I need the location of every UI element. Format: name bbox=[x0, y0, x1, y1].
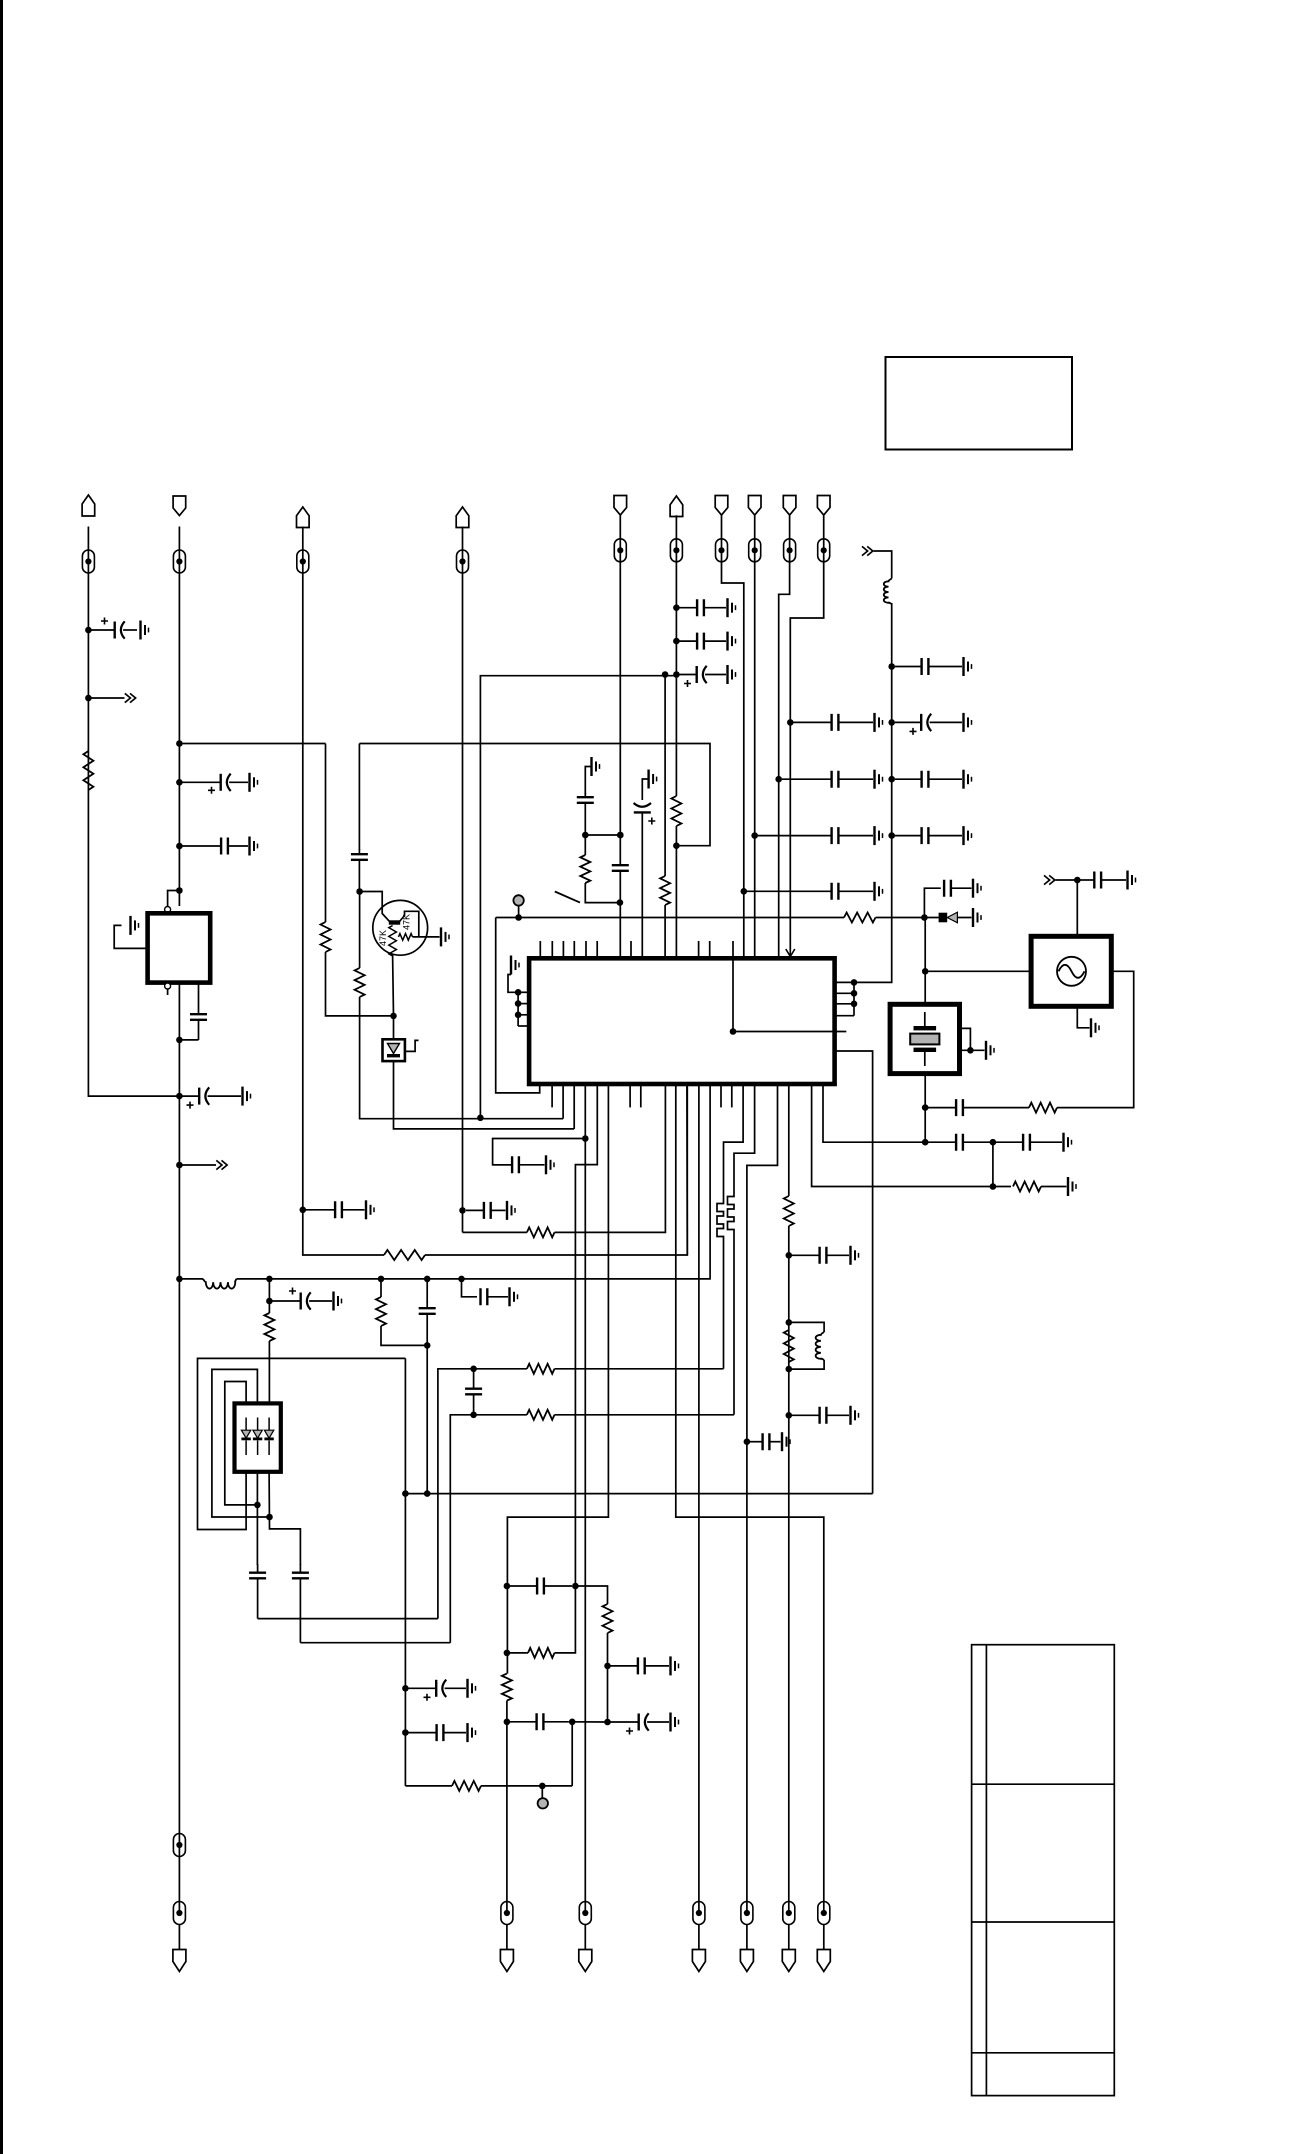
ground for C22 bbox=[964, 826, 972, 845]
terminal T18 bbox=[818, 1902, 830, 1925]
wire into terminal T1 bbox=[87, 527, 89, 574]
wire P8 straight to IC pin 755 bbox=[754, 561, 756, 958]
connector P-T15 (pentagon down) bbox=[692, 1950, 705, 1972]
wire bus to x=710 riser bbox=[237, 1278, 711, 1280]
capacitor C43 bbox=[508, 1713, 569, 1730]
resistor R21 bbox=[603, 1604, 613, 1633]
junction loop B bbox=[266, 1514, 273, 1521]
junction x179/y890 (U1 top pin tap) bbox=[176, 887, 183, 894]
wire D1 cathode down to IC pin 574 bbox=[394, 1061, 575, 1129]
wire x=179 from T2 down to U1 bbox=[178, 573, 180, 906]
terminal T13 bbox=[501, 1902, 513, 1925]
IC U2 bottom pin stub x=630.1 bbox=[629, 1084, 631, 1107]
wire P3 column down and right bbox=[303, 573, 384, 1255]
capacitor C12 (polarized, to ground) bbox=[679, 666, 726, 687]
diode D1 (in box) bbox=[383, 1039, 405, 1061]
junction x788/y1255 bbox=[786, 1252, 793, 1259]
ground for C15 bbox=[875, 713, 883, 732]
junction rail y=779 bbox=[888, 776, 895, 783]
junction LED drive node bbox=[390, 1013, 397, 1020]
ground for C13 bbox=[728, 598, 736, 617]
junction TP1 bbox=[515, 914, 522, 921]
capacitor C33 bbox=[419, 1301, 436, 1345]
junction x405/y1733 bbox=[402, 1729, 409, 1736]
diode D2 bbox=[924, 912, 971, 923]
resistor R5 bbox=[355, 968, 365, 997]
wire bus to C33 bbox=[426, 1279, 428, 1302]
IC U2 top pin stub x=586 bbox=[585, 941, 587, 958]
wire D2 node up to C23 bbox=[924, 888, 940, 917]
capacitor C18 (to ground) bbox=[747, 883, 873, 900]
ground for C21 bbox=[964, 770, 972, 789]
capacitor C40 bbox=[510, 1578, 572, 1595]
svg-text:47K: 47K bbox=[402, 914, 412, 930]
capacitor C3 (to ground) bbox=[182, 838, 248, 855]
junction x744/y891 bbox=[741, 888, 748, 895]
IC U2 top pin stub x=563.4 bbox=[562, 941, 564, 958]
diode D3.1 bbox=[241, 1418, 250, 1456]
wire IC pin 710 down to bus bbox=[709, 1084, 711, 1279]
wire into terminal T4 bbox=[462, 527, 464, 574]
empty label box bbox=[886, 357, 1073, 450]
ground for C30 bbox=[1064, 1133, 1072, 1152]
connector P10 (flag down) bbox=[817, 496, 830, 516]
wire y1786 left bbox=[405, 1785, 452, 1787]
wire IC pin 788 down to R12 bbox=[788, 1084, 790, 1196]
off-page arrow A3 (>>) bbox=[862, 546, 873, 555]
junction x179/y846 bbox=[176, 843, 183, 850]
wire net y=743 segment A bbox=[179, 743, 325, 745]
resistor R22 bbox=[528, 1648, 555, 1658]
wire C35 to x438 riser bbox=[258, 1618, 438, 1620]
U2 left pin 4 bbox=[518, 1025, 529, 1027]
wire T15 to pentagon bbox=[698, 1925, 700, 1950]
capacitor C29 bbox=[928, 1134, 991, 1151]
resistor R17 bbox=[376, 1297, 386, 1326]
revision table bbox=[972, 1645, 1115, 2096]
wire T12 to pentagon bbox=[178, 1925, 180, 1950]
wire A3 to L1 bbox=[874, 551, 892, 579]
terminal T1 bbox=[82, 550, 94, 573]
junction rail y=836 bbox=[888, 832, 895, 839]
terminal T5 bbox=[614, 539, 626, 562]
junction X1 bottom y1107 bbox=[922, 1104, 929, 1111]
wire R10 to IC pin 676 bbox=[675, 826, 677, 958]
junction right pin3 bbox=[851, 1001, 858, 1008]
wire IC pin 811 to right resistor row bbox=[812, 1084, 1011, 1187]
junction bus x269 bbox=[266, 1276, 273, 1283]
capacitor C13 (to ground) bbox=[679, 599, 726, 616]
U2 left pin 2 bbox=[518, 1003, 529, 1005]
junction left pin1 bbox=[515, 989, 522, 996]
wire IC pin 686 down bbox=[686, 1084, 688, 1255]
capacitor C19 (to ground) bbox=[895, 658, 962, 675]
wire y=675 row from x=480 riser bbox=[480, 676, 676, 1118]
wire P9 jog to IC pin 779 bbox=[779, 561, 790, 958]
junction inside U2 bbox=[730, 1028, 737, 1035]
U2 right pin 3 bbox=[835, 1003, 854, 1005]
ground for C5 bbox=[243, 1087, 251, 1106]
resistor R8 bbox=[580, 855, 590, 883]
connector P5 (flag down) bbox=[614, 496, 627, 516]
capacitor C27 (to ground) bbox=[750, 1433, 781, 1450]
junction x676/y675 bbox=[673, 671, 680, 678]
capacitor C16 (to ground) bbox=[782, 771, 873, 788]
junction y1415/x473 bbox=[470, 1412, 477, 1419]
junction x179/y1096 bbox=[176, 1093, 183, 1100]
wire x=359 to R5 bbox=[359, 892, 361, 969]
junction x427/y1345 bbox=[424, 1342, 431, 1349]
wire TP2 stem bbox=[541, 1786, 543, 1798]
wire into terminal T6 bbox=[675, 515, 677, 562]
wire X1 right pin 2 to ground bbox=[960, 1049, 985, 1051]
wire ground hook to C11 bbox=[642, 779, 648, 800]
capacitor C41 (to ground) bbox=[610, 1657, 669, 1674]
ground for C17 bbox=[875, 826, 883, 845]
ground for C1 bbox=[141, 621, 149, 640]
junction transistor collector node bbox=[356, 888, 363, 895]
wire A4 to OSC1 top pin bbox=[1056, 880, 1078, 936]
junction rail y=722 bbox=[888, 719, 895, 726]
U2 left pin 3 bbox=[518, 1014, 529, 1016]
ground for C39 bbox=[468, 1723, 476, 1742]
ground for Q1 bbox=[441, 927, 449, 946]
resistor R1 bbox=[83, 751, 93, 790]
wire net y=917 long horizontal bbox=[496, 917, 844, 919]
wire R21 down bbox=[607, 1633, 609, 1722]
junction x585/y835 bbox=[582, 832, 589, 839]
diode D3.3 bbox=[264, 1418, 273, 1456]
IC U2 top pin stub x=698.6 bbox=[698, 941, 700, 958]
wire T16 to pentagon bbox=[746, 1925, 748, 1950]
wire into terminal T9 bbox=[789, 515, 791, 562]
wire R22 to x=507 bbox=[507, 1652, 528, 1654]
junction left pin3 bbox=[515, 1012, 522, 1019]
IC U2 top pin stub x=709.7 bbox=[709, 941, 711, 958]
wire x=993 down bbox=[992, 1142, 994, 1186]
terminal T2 bbox=[173, 550, 185, 573]
IC U2 top pin stub x=574.3 bbox=[573, 941, 575, 958]
wire loop C (D3 bottom1 around) bbox=[198, 1358, 406, 1529]
ground for X1 bbox=[986, 1041, 994, 1060]
wire x=359 from y743 to C8 bbox=[358, 744, 360, 851]
U2 right pin 1 bbox=[835, 981, 854, 983]
capacitor C31 (to ground) bbox=[1080, 872, 1126, 889]
ground for C3 bbox=[250, 837, 258, 856]
junction bus start x=179 bbox=[176, 1276, 183, 1283]
wire ground to U2 left pins bbox=[508, 975, 518, 993]
off-page arrow A1 (>>) bbox=[125, 693, 136, 702]
node A1 tap bbox=[85, 695, 92, 702]
IC U2 bottom pin stub x=731.8 bbox=[731, 1084, 733, 1107]
capacitor C23 (to ground) bbox=[944, 880, 971, 897]
inductor L3 bbox=[203, 1279, 237, 1289]
ground for C18 bbox=[875, 882, 883, 901]
wire IC pin 675 to terminal 823 bbox=[676, 1084, 824, 1913]
wire X1 right pin 1 bbox=[960, 1028, 971, 1050]
diode array D3 (boxed, 3 diodes) bbox=[235, 1403, 281, 1471]
wire Q1 output down bbox=[392, 955, 395, 1016]
wire R16 to D3 box bbox=[268, 1341, 270, 1403]
wire IC pin 743 jog to choke FB1 bbox=[724, 1084, 744, 1201]
junction x607/y1722 bbox=[604, 1719, 611, 1726]
resistor R4 bbox=[321, 922, 331, 952]
ground for D2 bbox=[973, 908, 981, 927]
wire IC pin 698 to terminal bbox=[698, 1084, 700, 1913]
capacitor C26 (to ground) bbox=[792, 1407, 849, 1424]
connector P-T13 (pentagon down) bbox=[500, 1950, 513, 1972]
resistor R19 bbox=[527, 1410, 555, 1420]
junction y1494/x405 bbox=[402, 1490, 409, 1497]
wire ground hook to C9 bbox=[585, 767, 591, 795]
terminal T16 bbox=[741, 1902, 753, 1925]
wire rail x=891 down to IC right pins bbox=[854, 603, 892, 982]
wire x=507 lower to terminal bbox=[506, 1701, 508, 1913]
junction x302/y1210 bbox=[300, 1207, 307, 1214]
sine wave inside OSC1 bbox=[1059, 965, 1085, 978]
wire Q1 base feed bbox=[360, 892, 390, 922]
wire IC internal pin 733 to right edge pin bbox=[733, 958, 846, 1031]
wire FB1 down bbox=[723, 1239, 725, 1369]
junction x405/y1688 bbox=[402, 1685, 409, 1692]
connector P-T16 (pentagon down) bbox=[740, 1950, 753, 1972]
wire T13 to pentagon bbox=[506, 1925, 508, 1950]
wire into terminal T8 bbox=[754, 515, 756, 562]
choke FB2 bbox=[728, 1194, 735, 1232]
ground above C9 bbox=[592, 757, 600, 776]
IC U2 top pin stub x=540.3 bbox=[539, 941, 541, 958]
capacitor C20 (polarized, to ground) bbox=[895, 714, 962, 735]
resistor R12 bbox=[784, 1196, 794, 1226]
wire y1415 row right to FB2 bbox=[555, 1414, 735, 1416]
capacitor C2 (polarized, to ground) bbox=[182, 774, 248, 794]
wire C4 to x=179 column bbox=[179, 1039, 198, 1041]
junction x480/y1118 bbox=[477, 1115, 484, 1122]
wire D3 bottom3 to C36 bbox=[269, 1472, 300, 1565]
wire net y=743 segment B with drop to x=676 bbox=[359, 744, 710, 846]
wire FB2 down bbox=[733, 1232, 735, 1415]
switch lever S1 (diagonal stroke) bbox=[555, 892, 580, 903]
capacitor C1 (polarized, to ground) bbox=[91, 618, 137, 639]
ground for C14 bbox=[728, 632, 736, 651]
resistor R13 bbox=[784, 1330, 794, 1362]
terminal T3 bbox=[297, 550, 309, 573]
capacitor C32 (polarized, to ground) bbox=[272, 1288, 332, 1310]
U1 bottom open-circle pin bbox=[165, 983, 171, 989]
off-page arrow A2 (>>) bbox=[216, 1160, 227, 1169]
resistor R3 bbox=[527, 1227, 555, 1237]
ground for C6 bbox=[366, 1200, 374, 1219]
wire y1368 row right to FB1 bbox=[555, 1368, 724, 1370]
junction x676/y641 bbox=[673, 638, 680, 645]
IC U2 bottom pin stub x=721.0 bbox=[720, 1084, 722, 1107]
ground for C34 bbox=[510, 1287, 518, 1306]
wire U1 bottom pin 2 down to C4 bbox=[198, 983, 200, 1008]
wire y1138 to C24 bbox=[493, 1139, 586, 1162]
wire bus to C34 bbox=[462, 1279, 478, 1297]
terminal T10 bbox=[818, 539, 830, 562]
ground for R15 bbox=[1068, 1177, 1076, 1196]
junction rail y=666 bbox=[888, 663, 895, 670]
junction x585/y1138 bbox=[582, 1135, 589, 1142]
IC U2 (main controller) bbox=[529, 958, 835, 1084]
ground for C2 bbox=[250, 773, 258, 792]
junction left pin2 bbox=[515, 1000, 522, 1007]
wire Q1 emitter to ground bbox=[413, 936, 440, 938]
U2 right pin 2 bbox=[835, 992, 854, 994]
ground for C20 bbox=[964, 713, 972, 732]
capacitor C11 (polarized) bbox=[634, 803, 656, 958]
wire into terminal T2 bbox=[178, 527, 180, 574]
junction A4 bbox=[1074, 877, 1081, 884]
wire left column x=88 down to join x=179 bbox=[88, 572, 179, 1096]
capacitor C10 bbox=[612, 835, 629, 903]
IC U2 bottom pin stub x=640.8 bbox=[640, 1084, 642, 1107]
wire into terminal T3 bbox=[302, 527, 304, 574]
junction x179/y1040 bbox=[176, 1037, 183, 1044]
wire P7 jog to IC pin 744 bbox=[722, 561, 744, 958]
capacitor C6 (to ground) bbox=[306, 1201, 365, 1218]
ground for C32 bbox=[334, 1292, 342, 1311]
wire D3 bottom2 down to C35 bbox=[256, 1472, 258, 1565]
test point TP2 (gray) bbox=[538, 1798, 548, 1808]
junction right pin2 bbox=[851, 990, 858, 997]
ground U2 left bbox=[511, 956, 519, 975]
ground for C16 bbox=[875, 770, 883, 789]
wire joining U2 right pins bbox=[853, 982, 855, 1015]
wire D1 side pin hook bbox=[405, 1040, 419, 1051]
inductor L2 bbox=[816, 1332, 824, 1360]
U2 right pin 4 bbox=[835, 1015, 854, 1017]
capacitor C25 (to ground) bbox=[792, 1247, 849, 1264]
connector P6 (pentagon up) bbox=[670, 496, 683, 517]
wire bus to R17 bbox=[380, 1279, 382, 1297]
wire x=325 down to R4 bbox=[325, 744, 327, 923]
page left black border bbox=[0, 0, 3, 2154]
capacitor C42 (polarized, to ground) bbox=[610, 1713, 669, 1734]
junction y1368/x473 bbox=[470, 1366, 477, 1373]
ground for C23 bbox=[973, 879, 981, 898]
resistor R14 bbox=[1029, 1103, 1057, 1113]
wire IC pin 608 to terminal 507 upper bbox=[507, 1084, 608, 1674]
junction x676/y846 bbox=[673, 842, 680, 849]
oscillator OSC1 (boxed) bbox=[1031, 936, 1111, 1006]
wire y=1722 row middle bbox=[569, 1721, 608, 1723]
capacitor C28 bbox=[928, 1099, 1029, 1116]
wire C9 node to R8 bbox=[584, 835, 586, 855]
inductor L1 bbox=[884, 579, 892, 605]
off-page arrow A4 (>>) bbox=[1044, 875, 1055, 884]
wire x=572 down to TP row bbox=[571, 1722, 573, 1786]
wire R17 to x427 node bbox=[381, 1326, 427, 1345]
wire IC pin 754 jog to choke FB2 bbox=[734, 1084, 755, 1194]
wire P4 column down bbox=[462, 573, 464, 1232]
wire loop B (D3 top2 to bottom3) bbox=[212, 1369, 270, 1517]
capacitor C34 (to ground) bbox=[481, 1288, 509, 1305]
wire X1 top pin up bbox=[924, 971, 926, 1004]
wire IC pin 823 to crystal cap row bbox=[823, 1084, 925, 1142]
junction x778/y779 bbox=[775, 776, 782, 783]
capacitor C21 (to ground) bbox=[895, 771, 962, 788]
capacitor C35 bbox=[249, 1564, 266, 1619]
capacitor C38 (polarized, to ground) bbox=[408, 1680, 466, 1701]
wire R3 to IC pin 664 bbox=[555, 1085, 666, 1232]
connector P11 (pentagon down) bbox=[173, 1950, 186, 1972]
junction R13/L2 bottom bbox=[786, 1366, 793, 1373]
junction X1 top bbox=[922, 968, 929, 975]
junction x607/y1666 bbox=[604, 1663, 611, 1670]
wire R12 down to terminal 790 bbox=[788, 1226, 790, 1913]
wire P6 column upper bbox=[675, 561, 677, 796]
junction x462/y1210 bbox=[459, 1207, 466, 1214]
wire IC pin 563 down bbox=[562, 1084, 564, 1119]
junction X1 right bbox=[967, 1047, 974, 1054]
junction x507/y1722 bbox=[504, 1719, 511, 1726]
wire IC pin 574 down bbox=[573, 1084, 575, 1129]
connector P7 (flag down) bbox=[715, 496, 728, 516]
junction bus x427 bbox=[424, 1276, 431, 1283]
ground for C38 bbox=[468, 1679, 476, 1698]
junction x572/y1722 bbox=[569, 1719, 576, 1726]
wire T17 to pentagon bbox=[788, 1925, 790, 1950]
junction x788/y1415 bbox=[786, 1412, 793, 1419]
junction y1142/x993 bbox=[990, 1139, 997, 1146]
terminal T14 bbox=[579, 1902, 591, 1925]
ground for C24 bbox=[546, 1155, 554, 1174]
wire x450 riser and y1415 row left bbox=[450, 1415, 527, 1643]
terminal T8 bbox=[749, 539, 761, 562]
wire R2 to IC pin 686 bbox=[425, 1085, 687, 1255]
wire OSC1 bottom pin to ground bbox=[1077, 1006, 1089, 1028]
junction x507/y1586 bbox=[504, 1583, 511, 1590]
wire joining U2 left pins bbox=[517, 992, 519, 1026]
junction R13/L2 top bbox=[786, 1319, 793, 1326]
ground for C42 bbox=[671, 1713, 679, 1732]
wire y1586 to R21 bbox=[575, 1586, 607, 1604]
capacitor C22 (to ground) bbox=[895, 827, 962, 844]
wire R4 to LED node bbox=[326, 952, 394, 1016]
crystal X1 (boxed) bbox=[890, 1004, 959, 1073]
wire IC pin 597 jog to x=575 down to R22 row bbox=[555, 1084, 598, 1653]
connector P2 (flag down) bbox=[173, 496, 186, 516]
wire R14 to OSC1 right pin bbox=[1057, 971, 1134, 1107]
resistor R7 (47K internal) bbox=[399, 934, 413, 941]
capacitor C36 bbox=[292, 1564, 309, 1643]
capacitor C7 (to ground) bbox=[466, 1202, 506, 1219]
junction x676/y608 bbox=[673, 604, 680, 611]
wire x438 riser and y1368 row left bbox=[438, 1369, 527, 1619]
resistor R18 bbox=[527, 1364, 555, 1374]
wire loop A (D3 top1 to bottom2) bbox=[225, 1382, 258, 1505]
resistor R2 bbox=[384, 1250, 425, 1260]
connector P-T18 (pentagon down) bbox=[817, 1950, 830, 1972]
resistor R23 bbox=[502, 1674, 512, 1701]
junction x620/y835 bbox=[617, 832, 624, 839]
wire to off-page arrow A1 bbox=[88, 697, 124, 699]
wire R9 to IC pin 665 bbox=[664, 905, 666, 958]
junction x575/y1586 bbox=[572, 1583, 579, 1590]
connector P4 (pentagon up) bbox=[456, 507, 469, 528]
ground for C19 bbox=[964, 657, 972, 676]
wire y=835 bbox=[585, 834, 620, 836]
stub below U1 bottom pin bbox=[167, 989, 169, 995]
node C1 tap bbox=[85, 627, 92, 634]
wire P10 jog to IC pin 790 bbox=[790, 561, 823, 950]
wire y1786 right bbox=[481, 1785, 572, 1787]
wire net y=1494 long row bbox=[405, 1493, 872, 1495]
ground for C41 bbox=[671, 1656, 679, 1675]
connector P9 (flag down) bbox=[783, 496, 796, 516]
